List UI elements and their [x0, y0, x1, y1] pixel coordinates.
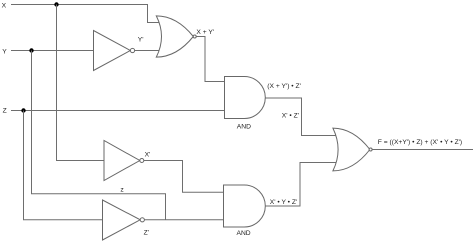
wire OR2 output F	[372, 149, 473, 151]
junction on X	[54, 2, 58, 6]
or-gate OR1	[156, 16, 193, 57]
wire NOT3 output to AND2	[144, 219, 223, 221]
svg-text:(X + Y') • Z': (X + Y') • Z'	[267, 83, 301, 90]
svg-text:X': X'	[145, 152, 151, 159]
inverter NOT1	[94, 31, 135, 71]
svg-text:X' • Y • Z': X' • Y • Z'	[270, 199, 297, 206]
junction on Z	[21, 108, 25, 112]
svg-text:F = ((X+Y') • Z) + (X' • Y • Z: F = ((X+Y') • Z) + (X' • Y • Z')	[378, 139, 462, 146]
wire net Z horizontal to AND1	[11, 110, 225, 112]
svg-text:Y: Y	[2, 48, 7, 55]
wire net Y horizontal	[11, 50, 94, 52]
OR1 output port circle	[193, 35, 196, 38]
inverter NOT2	[104, 141, 144, 181]
wire AND1 output to OR2	[265, 98, 336, 136]
wire NOT2 output to AND2	[144, 161, 224, 193]
svg-text:X' • Z': X' • Z'	[282, 113, 299, 120]
wire Y branch down	[32, 51, 166, 220]
wire X branch down to NOT2	[57, 5, 105, 161]
inverter NOT3	[103, 200, 145, 240]
or-gate OR2	[333, 128, 370, 171]
wire Z branch down to NOT3	[24, 111, 103, 220]
OR2 output port circle	[369, 148, 372, 151]
svg-text:AND: AND	[237, 230, 251, 237]
svg-text:AND: AND	[237, 123, 251, 130]
wire net X horizontal	[11, 5, 159, 23]
wire OR1 output to AND1	[196, 37, 224, 82]
svg-text:Z': Z'	[144, 230, 149, 237]
svg-text:Z: Z	[3, 108, 7, 115]
junction on Y	[29, 48, 33, 52]
svg-text:z: z	[120, 186, 124, 193]
svg-text:Y': Y'	[138, 36, 144, 43]
and-gate AND1	[225, 77, 266, 119]
wire NOT1 output to OR1	[135, 50, 159, 52]
wire AND2 output to OR2	[265, 163, 336, 207]
svg-text:X: X	[2, 3, 7, 10]
svg-text:X + Y': X + Y'	[196, 29, 214, 36]
and-gate AND2	[224, 185, 266, 227]
